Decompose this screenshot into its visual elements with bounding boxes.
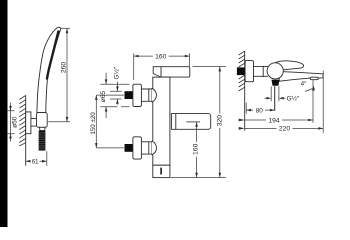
svg-text:80: 80 — [256, 107, 264, 114]
svg-text:G½": G½" — [113, 67, 121, 80]
svg-text:260: 260 — [61, 62, 68, 74]
svg-text:194: 194 — [268, 117, 280, 124]
svg-text:320: 320 — [216, 115, 223, 127]
svg-text:160: 160 — [193, 143, 200, 155]
svg-text:61: 61 — [32, 159, 39, 165]
svg-text:G½": G½" — [287, 95, 300, 103]
svg-text:ø50: ø50 — [12, 116, 19, 128]
svg-text:4°: 4° — [301, 82, 307, 88]
svg-text:220: 220 — [279, 126, 291, 133]
svg-text:150 ±20: 150 ±20 — [90, 112, 97, 135]
svg-text:ø65: ø65 — [100, 91, 107, 103]
svg-text:160: 160 — [155, 54, 167, 61]
